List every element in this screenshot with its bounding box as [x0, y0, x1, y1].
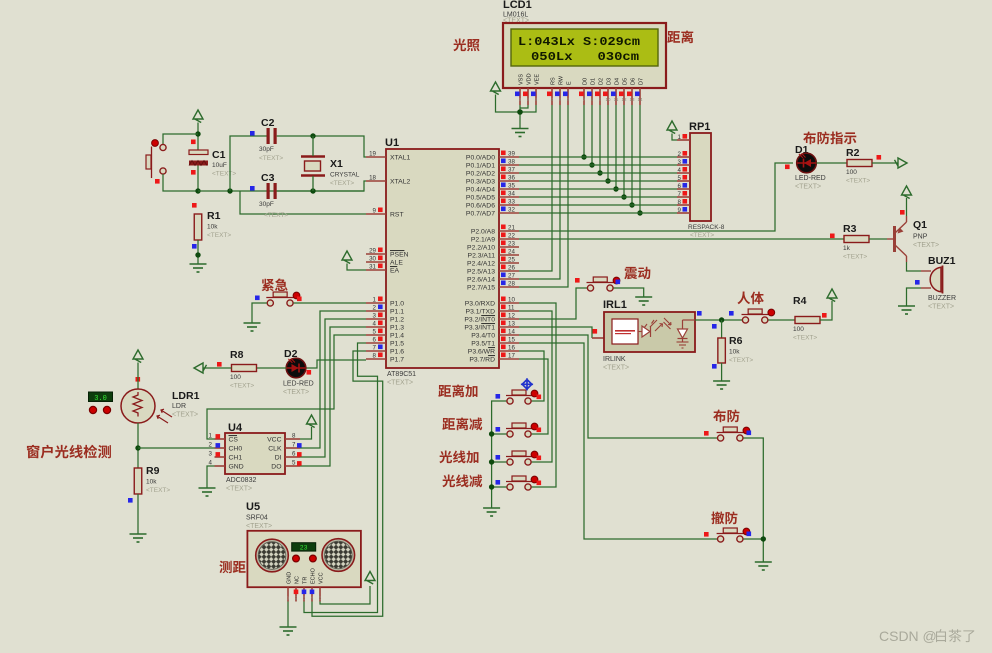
wire reset node to C3 [198, 190, 364, 192]
resistor R4 100 [795, 317, 820, 324]
svg-text:LCD1: LCD1 [503, 0, 532, 11]
svg-text:29: 29 [369, 248, 376, 255]
U1 pin 2 (P1.1) stub [366, 310, 386, 312]
svg-text:SRF04: SRF04 [246, 515, 268, 522]
U5 pin NC state square [294, 590, 299, 595]
state square pin 14 [501, 329, 506, 334]
U1 pin 16 (P3.6/WR) stub [499, 350, 519, 352]
U1 pin 38 (P0.1/AD1) stub [499, 164, 519, 166]
U1 pin 27 (P2.6/A14) stub [499, 278, 519, 280]
wire U5 GND to ground [287, 602, 289, 628]
svg-text:12: 12 [621, 97, 627, 102]
svg-text:CS: CS [229, 437, 239, 444]
LCD pin D3 state square [603, 92, 608, 97]
wire light- button to rail [492, 486, 507, 488]
ground (vibration button) [635, 297, 652, 305]
svg-text:100: 100 [846, 169, 857, 176]
svg-text:CLK: CLK [268, 446, 282, 453]
svg-text:<TEXT>: <TEXT> [283, 389, 309, 396]
svg-text:TR: TR [303, 577, 309, 584]
LCD pin VSS state square [515, 92, 520, 97]
IRL1 internal ground [677, 342, 689, 348]
svg-text:37: 37 [508, 167, 515, 174]
resistor R2 100 [847, 160, 872, 167]
ground (R6) [713, 381, 730, 389]
state square pin 13 [501, 321, 506, 326]
RP1 pin 9 stub [677, 212, 690, 214]
ground (buzzer) [898, 306, 915, 314]
svg-text:D7: D7 [639, 78, 645, 85]
U5 pin VCC stub [319, 587, 321, 601]
svg-text:P3.1/TXD: P3.1/TXD [466, 309, 496, 316]
red square left of vibration button [575, 278, 580, 283]
svg-text:P2.1/A9: P2.1/A9 [471, 237, 495, 244]
IRL1 emission arrows [644, 320, 663, 331]
wire power to RP1 pin 1 [672, 134, 677, 141]
svg-text:<TEXT>: <TEXT> [259, 155, 283, 162]
state square pin 9 [378, 208, 383, 213]
state square pin 30 [378, 256, 383, 261]
power arrow left (R8) [194, 363, 207, 373]
label 光照 (light) [453, 39, 479, 52]
state square pin 24 [501, 249, 506, 254]
red square after R4 [822, 313, 827, 318]
ground (U5) [280, 627, 297, 635]
blue square left of human button [729, 311, 734, 316]
blue squares at R6 [712, 324, 717, 329]
IRL1 internal wire to right pin [683, 319, 696, 321]
net P1.6 wire to U5 ECHO [312, 351, 383, 616]
wire VSS down [519, 105, 521, 129]
junction IRL1/R6 [719, 317, 724, 322]
LDR brightness display [89, 392, 113, 402]
junction rail distance- [489, 431, 494, 436]
RP1 pin 8 state square [683, 199, 688, 204]
wire LCD D7 to P0.7 [639, 105, 641, 213]
blue square at buzzer [915, 280, 920, 285]
resistor R8 100 [232, 365, 257, 372]
svg-text:5: 5 [292, 460, 296, 467]
U4 pin 7 (CLK) stub [285, 447, 300, 449]
power arrow (R4) [827, 289, 837, 302]
U1 pin 28 (P2.7/A15) stub [499, 286, 519, 288]
svg-text:<TEXT>: <TEXT> [387, 380, 413, 387]
junction rail light- [489, 484, 494, 489]
svg-text:2: 2 [209, 442, 213, 449]
svg-text:31: 31 [369, 264, 376, 271]
U5 transducer left [256, 539, 289, 572]
red square right of D2 [307, 370, 312, 375]
svg-text:22: 22 [508, 233, 515, 240]
red square before R8 [217, 362, 222, 367]
svg-text:10k: 10k [146, 479, 157, 486]
svg-text:LED-RED: LED-RED [795, 175, 826, 182]
label light- [442, 474, 482, 487]
U1 pin 15 (P3.5/T1) stub [499, 342, 519, 344]
wire RST branch [240, 191, 366, 214]
LCD pin D0 state square [579, 92, 584, 97]
svg-text:RESPACK-8: RESPACK-8 [688, 224, 725, 231]
state square pin 4 [378, 321, 383, 326]
red square right of emergency button [297, 297, 302, 302]
U4 state square pin 6 [297, 452, 302, 457]
LCD pin D1 state square [587, 92, 592, 97]
net P3.0 wire to button 光线减 [519, 303, 556, 487]
svg-text:100: 100 [230, 374, 241, 381]
junction VEE rail [517, 109, 523, 115]
U1 pin 1 (P1.0) stub [366, 302, 386, 304]
LED D2 (LED-RED) [286, 358, 306, 378]
svg-text:P1.3: P1.3 [390, 325, 404, 332]
wire buzzer bottom to ground [907, 288, 922, 306]
buzzer BUZ1 [921, 266, 943, 294]
net P1.5 wire to U5 TR [304, 343, 378, 613]
wire junction to R6 [721, 320, 723, 338]
svg-text:D5: D5 [623, 78, 629, 85]
RP1 pin 6 state square [683, 183, 688, 188]
svg-text:13: 13 [508, 321, 515, 328]
svg-text:P2.7/A15: P2.7/A15 [467, 285, 495, 292]
LCD pin D6 state square [627, 92, 632, 97]
LCD pin D3 stub [607, 88, 609, 105]
svg-text:6: 6 [292, 451, 296, 458]
svg-text:PNP: PNP [913, 234, 928, 241]
svg-text:25: 25 [508, 257, 515, 264]
wire net P0.5 to RP1 pin 7 [519, 196, 677, 198]
svg-text:<TEXT>: <TEXT> [172, 412, 198, 419]
svg-text:Q1: Q1 [913, 219, 927, 231]
svg-text:33: 33 [508, 199, 515, 206]
U1 pin 9 (RST) stub [366, 213, 386, 215]
ground (arm/disarm) [755, 562, 772, 570]
RP1 pin 4 stub [677, 172, 690, 174]
ground (emergency button) [244, 323, 261, 331]
svg-text:15: 15 [508, 337, 515, 344]
RP1 pin 7 state square [683, 191, 688, 196]
LCD pin D7 stub [639, 88, 641, 105]
svg-text:U5: U5 [246, 501, 260, 513]
ground (LCD) [512, 129, 529, 137]
U5 pin NC stub [295, 587, 297, 601]
svg-text:38: 38 [508, 159, 515, 166]
svg-text:11: 11 [614, 97, 619, 102]
wire net P0.2 to RP1 pin 4 [519, 172, 677, 174]
junction D7/P0.7 [637, 210, 642, 215]
wire disarm button to riser [743, 538, 763, 540]
wire E to P2.7 [519, 105, 568, 287]
svg-text:100: 100 [793, 326, 804, 333]
svg-text:R3: R3 [843, 223, 857, 235]
U1 pin 30 (ALE) stub [366, 261, 386, 263]
U1 pin 29 (PSEN) stub [366, 253, 386, 255]
svg-text:VDD: VDD [527, 73, 533, 85]
junction disarm riser [761, 536, 766, 541]
svg-text:P1.6: P1.6 [390, 349, 404, 356]
wire C2 right to XTAL1 [277, 136, 366, 157]
wire C2 left vertical [230, 136, 268, 191]
svg-text:3.0: 3.0 [94, 395, 107, 403]
svg-text:P1.7: P1.7 [390, 357, 404, 364]
power arrow (U5 VCC) [365, 572, 375, 585]
U4 state square pin 7 [297, 443, 302, 448]
svg-text:30: 30 [369, 256, 376, 263]
U4 state square pin 5 [297, 461, 302, 466]
pushbutton distance- [506, 423, 538, 437]
svg-text:<TEXT>: <TEXT> [226, 486, 252, 493]
U1 pin 13 (P3.3/INT1) stub [499, 326, 519, 328]
LED D1 (LED-RED) [797, 153, 817, 173]
pushbutton human-body [742, 309, 775, 323]
svg-text:P0.2/AD2: P0.2/AD2 [466, 171, 495, 178]
svg-text:2: 2 [373, 305, 377, 312]
junction crystal-bottom [310, 188, 315, 193]
svg-text:050Lx 030cm: 050Lx 030cm [531, 51, 639, 64]
U1 pin 14 (P3.4/T0) stub [499, 334, 519, 336]
state square pin 28 [501, 281, 506, 286]
wire C3 right to XTAL2 [277, 181, 366, 191]
wire R6 to ground [721, 363, 723, 381]
net P1.4 wire to U4 CS [207, 335, 366, 439]
svg-text:DO: DO [271, 464, 281, 471]
svg-text:11: 11 [508, 305, 515, 312]
pushbutton disarm [717, 528, 750, 542]
U1 pin 32 (P0.7/AD7) stub [499, 212, 519, 214]
svg-text:LDR1: LDR1 [172, 390, 200, 402]
U1 pin 31 (EA) stub [366, 269, 386, 271]
blue square C2 left [250, 131, 255, 136]
net P3.7 wire to button 距离减 [519, 359, 548, 434]
U1 pin 3 (P1.2) stub [366, 318, 386, 320]
svg-text:23: 23 [508, 241, 515, 248]
svg-text:P1.1: P1.1 [390, 309, 404, 316]
svg-text:27: 27 [508, 273, 515, 280]
net P1.7 wire to D2 [306, 360, 367, 368]
LCD pin D0 stub [583, 88, 585, 105]
label 窗户光线检测 (window light detection) [27, 445, 111, 459]
svg-text:10k: 10k [729, 349, 740, 356]
state square pin 37 [501, 167, 506, 172]
svg-text:R8: R8 [230, 349, 244, 361]
RP1 pin 7 stub [677, 196, 690, 198]
wire VCC arrow to C1 top [197, 123, 199, 151]
net P3.4 wire to arm button [519, 335, 717, 438]
wire distance- button to rail [492, 433, 507, 435]
LCD screen [511, 29, 658, 66]
svg-text:L:043Lx S:029cm: L:043Lx S:029cm [518, 36, 640, 49]
state square pin 34 [501, 191, 506, 196]
state square pin 10 [501, 297, 506, 302]
svg-text:<TEXT>: <TEXT> [846, 178, 870, 185]
U1 pin 25 (P2.4/A12) stub [499, 262, 519, 264]
U1 pin 18 (XTAL2) stub [366, 180, 386, 182]
U5 pin GND stub [287, 587, 289, 601]
svg-text:P2.5/A13: P2.5/A13 [467, 269, 495, 276]
svg-text:39: 39 [508, 151, 515, 158]
svg-text:CH1: CH1 [229, 455, 243, 462]
wire light+ button to rail [492, 461, 507, 463]
svg-text:32: 32 [508, 207, 515, 214]
pushbutton arm [717, 427, 750, 441]
state square pin 29 [378, 248, 383, 253]
U1 pin 33 (P0.6/AD6) stub [499, 204, 519, 206]
svg-text:P3.7/RD: P3.7/RD [469, 357, 495, 364]
svg-text:7: 7 [678, 191, 682, 198]
wire LCD D2 to P0.2 [599, 105, 601, 173]
wire net P0.4 to RP1 pin 6 [519, 188, 677, 190]
svg-text:P0.0/AD0: P0.0/AD0 [466, 155, 495, 162]
svg-text:<TEXT>: <TEXT> [928, 304, 954, 311]
svg-text:9: 9 [678, 207, 682, 214]
svg-text:35: 35 [508, 183, 515, 190]
RP1 pin 5 stub [677, 180, 690, 182]
state square pin 11 [501, 305, 506, 310]
U4 pin 2 (CH0) stub [215, 447, 226, 449]
state square pin 39 [501, 151, 506, 156]
U1 pin 26 (P2.5/A13) stub [499, 270, 519, 272]
IRL1 encoder white box [612, 319, 638, 344]
wire LCD D0 to P0.0 [583, 105, 585, 157]
wire power to LDR [137, 363, 139, 391]
junction D1/P0.1 [589, 162, 594, 167]
svg-text:VCC: VCC [267, 437, 281, 444]
svg-text:10uF: 10uF [212, 162, 227, 169]
IRL1 left pin stub [592, 337, 604, 339]
svg-text:30pF: 30pF [259, 146, 274, 153]
RP1 pin 1 state square [683, 134, 688, 139]
power arrow right (R2) [895, 158, 908, 168]
wire net P0.3 to RP1 pin 5 [519, 180, 677, 182]
junction D4/P0.4 [613, 186, 618, 191]
state square pin 3 [378, 313, 383, 318]
svg-text:DI: DI [275, 455, 282, 462]
resistor pack RP1 body [690, 133, 711, 221]
power arrow (RP1 common) [667, 121, 677, 134]
svg-text:<TEXT>: <TEXT> [603, 365, 629, 372]
RP1 pin 2 stub [677, 156, 690, 158]
U1 pin 22 (P2.1/A9) stub [499, 238, 519, 240]
label 撤防 (disarm) [711, 511, 737, 524]
svg-text:XTAL2: XTAL2 [390, 179, 410, 186]
U1 pin 21 (P2.0/A8) stub [499, 230, 519, 232]
blue square left of emergency button [255, 296, 260, 301]
svg-text:8: 8 [292, 433, 296, 440]
svg-text:C1: C1 [212, 149, 226, 161]
junction reset-top [195, 131, 200, 136]
svg-text:P1.0: P1.0 [390, 301, 404, 308]
net P3.5 wire to disarm button [519, 343, 717, 539]
ground (reset circuit) [190, 264, 207, 272]
blue square at vibration button [616, 280, 621, 285]
svg-text:P1.4: P1.4 [390, 333, 404, 340]
svg-text:17: 17 [508, 353, 515, 360]
label 测距 (ranging) [219, 561, 245, 574]
svg-text:D0: D0 [583, 78, 589, 85]
blue square at IRL1 output [697, 311, 702, 316]
U1 pin 12 (P3.2/INT0) stub [499, 318, 519, 320]
svg-text:BUZZER: BUZZER [928, 295, 956, 302]
wire arm button to common riser [743, 438, 763, 562]
crystal X1 [301, 136, 325, 191]
svg-text:12: 12 [508, 313, 515, 320]
blue selection diamond [521, 378, 533, 390]
red squares at C1 pins [191, 140, 196, 145]
wire U4 VCC to power [300, 427, 312, 439]
power arrow (Q1 emitter) [902, 186, 912, 199]
wire vibration button to ground [614, 288, 644, 297]
svg-text:R2: R2 [846, 147, 860, 159]
resistor R3 1k [844, 236, 869, 243]
svg-text:7: 7 [373, 345, 377, 352]
svg-text:<TEXT>: <TEXT> [795, 184, 821, 191]
ultrasonic module U5 body [247, 531, 361, 587]
svg-text:P3.5/T1: P3.5/T1 [471, 341, 495, 348]
state square pin 35 [501, 183, 506, 188]
LCD pin RW stub [559, 88, 561, 105]
wire R2 to power arrow [872, 162, 898, 164]
svg-text:D1: D1 [591, 78, 597, 85]
label 布防指示 (arming indicator) [803, 131, 856, 144]
blue square C3 left [250, 186, 255, 191]
net P3.6 wire to button 距离加 [519, 351, 544, 401]
svg-text:<TEXT>: <TEXT> [729, 357, 753, 364]
state square pin 15 [501, 337, 506, 342]
svg-text:36: 36 [508, 175, 515, 182]
U4 pin 3 (CH1) stub [215, 456, 226, 458]
svg-text:RS: RS [551, 77, 557, 85]
LCD pin D1 stub [591, 88, 593, 105]
U1 pin 4 (P1.3) stub [366, 326, 386, 328]
wire VDD join [520, 105, 528, 108]
svg-text:30pF: 30pF [259, 201, 274, 208]
junction D6/P0.6 [629, 202, 634, 207]
U1 pin 37 (P0.2/AD2) stub [499, 172, 519, 174]
svg-text:D2: D2 [599, 78, 605, 85]
LCD pin D2 state square [595, 92, 600, 97]
state square pin 6 [378, 337, 383, 342]
pushbutton distance+ [506, 390, 538, 404]
U4 pin 8 (VCC) stub [285, 438, 300, 440]
svg-text:C3: C3 [261, 172, 275, 184]
wire emergency button to ground [252, 303, 267, 323]
blue square left of light- button [496, 480, 501, 485]
red square right of distance- button [537, 428, 542, 433]
capacitor C3 30pF [267, 183, 277, 199]
RP1 pin 6 stub [677, 188, 690, 190]
wire RW to P2.6 [519, 105, 560, 279]
net P1.3 wire to U4 DO [300, 327, 366, 466]
net P1.1 wire to U4 CLK [300, 311, 366, 448]
wire LCD D3 to P0.3 [607, 105, 609, 181]
svg-text:CSDN @: CSDN @ [879, 628, 937, 644]
red square at IRL1 input [593, 329, 598, 334]
svg-text:E: E [567, 81, 573, 85]
wire Q1 collector to buzzer [907, 262, 922, 271]
junction R1-ground [195, 252, 200, 257]
power arrow (LCD VSS rail) [491, 82, 501, 95]
ADC U4 body [225, 433, 285, 474]
state square pin 7 [378, 345, 383, 350]
wire emergency button to P1.0 [294, 302, 367, 304]
svg-text:10: 10 [508, 297, 515, 304]
svg-text:P0.7/AD7: P0.7/AD7 [466, 211, 495, 218]
label distance- [442, 417, 482, 430]
svg-text:EA: EA [390, 268, 400, 275]
wire net P0.7 to RP1 pin 9 [519, 212, 677, 214]
wire button bottom to reset node [163, 174, 198, 191]
wire D2 to R8 [256, 367, 287, 369]
state square pin 27 [501, 273, 506, 278]
state square pin 21 [501, 225, 506, 230]
